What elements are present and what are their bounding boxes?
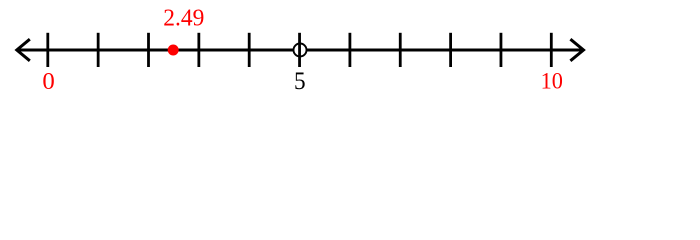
svg-text:0: 0 (42, 69, 54, 95)
svg-text:10: 10 (541, 69, 563, 95)
svg-text:2.49: 2.49 (163, 4, 204, 31)
svg-text:5: 5 (294, 68, 306, 95)
